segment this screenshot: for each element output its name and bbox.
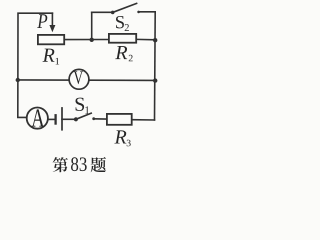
wire: battery to S1 contact [62,118,76,120]
label R2 subscript 2 [129,55,133,62]
caption character 第 [53,157,68,172]
node: junction R2 output at right edge [153,38,157,42]
node: S1 left contact dot [74,117,78,121]
wire: bottom-right corner to R3 [133,119,155,121]
resistor R1 (rheostat body) [38,35,64,44]
node: S2 left contact dot [111,11,115,15]
label R3 subscript 3 [127,140,131,147]
label S2 letter [116,16,124,28]
slider P arrowhead onto R1 [49,25,55,32]
label R1 letter [43,49,55,62]
ammeter letter A [31,109,44,126]
wire: R2 output to right edge [137,38,155,40]
battery cell long plate [61,107,63,131]
node: S1 right contact dot [92,117,95,120]
wire: S2 right lead and top-right corner [138,11,155,13]
node: S2 right contact dot [137,11,140,14]
node: voltmeter rail at right edge [153,78,157,82]
wire: branch from junction up to S2 [91,12,93,40]
wire: S2 left lead [92,11,113,13]
wire: slider arrow stem [51,13,53,25]
label P (slider) [37,14,47,28]
label S2 subscript 2 [125,24,129,31]
switch S1 open blade [76,113,91,119]
resistor R3 [107,114,132,125]
switch S2 open blade [113,3,137,12]
ammeter A1 circle [27,108,48,129]
label S1 letter [76,98,85,111]
wire: top side from slider stem to top-left corner, left edge down, stub to ammeter [18,13,53,117]
resistor R2 [109,34,136,43]
wire: R1 output through junction to R2 left lead [65,39,109,41]
wire: voltmeter rail across middle [18,79,155,82]
voltmeter U1 circle [69,69,89,89]
node: voltmeter rail at left edge [16,78,20,82]
wire: battery short plate to ammeter [49,118,56,120]
label S1 subscript 1 [85,106,89,114]
wire: right edge of circuit [154,12,157,120]
wire: S1 right lead to R3 [93,118,106,120]
label R2 letter [115,46,127,59]
node: junction R1/S2 branch [90,38,94,42]
voltmeter letter V [74,71,83,84]
battery cell short plate [54,114,56,125]
label R3 letter [114,130,126,143]
label R1 subscript 1 [56,58,60,65]
caption number 83 [71,157,87,171]
caption character 题 [91,157,106,172]
